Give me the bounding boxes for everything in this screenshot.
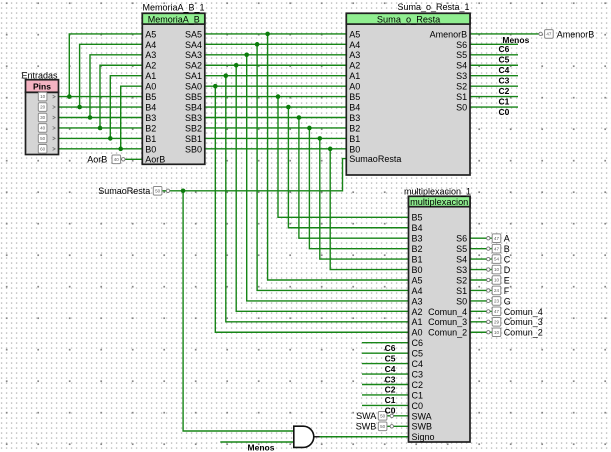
svg-text:C0: C0	[412, 401, 424, 411]
svg-text:A5: A5	[145, 29, 156, 39]
svg-text:SB2: SB2	[185, 123, 202, 133]
svg-text:B2: B2	[412, 244, 423, 254]
svg-text:C0: C0	[499, 107, 510, 117]
svg-text:A4: A4	[412, 286, 423, 296]
svg-text:MemoriaA_B_1: MemoriaA_B_1	[142, 2, 204, 12]
svg-text:47: 47	[494, 309, 500, 314]
svg-text:SA4: SA4	[185, 40, 202, 50]
svg-text:SA0: SA0	[185, 82, 202, 92]
svg-text:A0: A0	[145, 82, 156, 92]
svg-text:50: 50	[380, 424, 386, 429]
svg-text:C5: C5	[412, 349, 424, 359]
svg-text:C4: C4	[412, 359, 424, 369]
svg-text:B3: B3	[145, 113, 156, 123]
svg-text:Comun_2: Comun_2	[504, 328, 543, 338]
svg-text:47: 47	[494, 246, 500, 251]
svg-text:AmenorB: AmenorB	[557, 29, 595, 39]
svg-text:C1: C1	[499, 96, 510, 106]
svg-text:D: D	[504, 265, 511, 275]
svg-text:multiplexacion_1: multiplexacion_1	[404, 187, 471, 197]
svg-text:10: 10	[494, 278, 500, 283]
svg-text:B2: B2	[349, 123, 360, 133]
svg-text:A2: A2	[145, 61, 156, 71]
svg-text:C2: C2	[499, 86, 510, 96]
svg-text:20: 20	[40, 105, 46, 110]
svg-text:A1: A1	[412, 317, 423, 327]
svg-text:B4: B4	[145, 102, 156, 112]
svg-text:C: C	[504, 255, 511, 265]
svg-text:SB1: SB1	[185, 134, 202, 144]
svg-text:SB0: SB0	[185, 144, 202, 154]
svg-text:multiplexacion: multiplexacion	[410, 197, 468, 207]
svg-text:B5: B5	[412, 213, 423, 223]
svg-text:B4: B4	[412, 223, 423, 233]
svg-text:S5: S5	[456, 244, 467, 254]
svg-text:A3: A3	[412, 296, 423, 306]
svg-text:Comun_4: Comun_4	[428, 307, 467, 317]
svg-text:C2: C2	[385, 385, 396, 395]
svg-text:30: 30	[40, 115, 46, 120]
svg-text:E: E	[504, 275, 510, 285]
svg-text:23: 23	[494, 299, 500, 304]
svg-text:B0: B0	[145, 144, 156, 154]
svg-text:B2: B2	[145, 123, 156, 133]
svg-text:SWA: SWA	[356, 411, 376, 421]
svg-text:C4: C4	[499, 65, 510, 75]
svg-text:A3: A3	[349, 50, 360, 60]
svg-text:B1: B1	[145, 134, 156, 144]
svg-text:G: G	[504, 296, 511, 306]
svg-text:S6: S6	[456, 234, 467, 244]
svg-text:B: B	[504, 244, 510, 254]
svg-text:Comun_4: Comun_4	[504, 307, 543, 317]
svg-text:S1: S1	[456, 92, 467, 102]
svg-text:SB5: SB5	[185, 92, 202, 102]
svg-text:B0: B0	[412, 265, 423, 275]
svg-text:Entradas: Entradas	[22, 71, 59, 81]
svg-text:B0: B0	[349, 144, 360, 154]
svg-text:SumaoResta: SumaoResta	[349, 154, 401, 164]
svg-text:S4: S4	[456, 61, 467, 71]
svg-text:A: A	[504, 234, 510, 244]
svg-text:A0: A0	[412, 328, 423, 338]
svg-text:AorB: AorB	[145, 155, 165, 165]
svg-text:C0: C0	[385, 406, 396, 416]
svg-text:Comun_2: Comun_2	[428, 328, 467, 338]
svg-text:SWA: SWA	[412, 411, 432, 421]
svg-text:B5: B5	[349, 92, 360, 102]
svg-text:10: 10	[494, 330, 500, 335]
svg-text:S3: S3	[456, 71, 467, 81]
svg-text:50: 50	[40, 136, 46, 141]
svg-text:SA1: SA1	[185, 71, 202, 81]
svg-text:Signo: Signo	[412, 432, 435, 442]
svg-text:10: 10	[494, 267, 500, 272]
svg-text:10: 10	[40, 94, 46, 99]
svg-text:A1: A1	[349, 71, 360, 81]
svg-text:Pins: Pins	[33, 82, 51, 92]
svg-text:SA3: SA3	[185, 50, 202, 60]
svg-text:S4: S4	[456, 255, 467, 265]
svg-text:A5: A5	[349, 29, 360, 39]
svg-text:AorB: AorB	[87, 155, 107, 165]
svg-text:B3: B3	[349, 113, 360, 123]
svg-text:S5: S5	[456, 50, 467, 60]
svg-text:SA5: SA5	[185, 29, 202, 39]
svg-text:40: 40	[114, 157, 120, 162]
svg-text:S3: S3	[456, 265, 467, 275]
svg-text:MemoriaA_B: MemoriaA_B	[148, 14, 200, 24]
svg-text:A2: A2	[349, 61, 360, 71]
svg-text:A2: A2	[412, 307, 423, 317]
svg-text:A4: A4	[145, 40, 156, 50]
svg-text:B1: B1	[349, 134, 360, 144]
svg-text:C3: C3	[412, 369, 424, 379]
svg-text:A5: A5	[412, 275, 423, 285]
svg-text:24: 24	[494, 288, 500, 293]
svg-text:B3: B3	[412, 234, 423, 244]
svg-text:54: 54	[494, 257, 500, 262]
svg-text:A1: A1	[145, 71, 156, 81]
svg-text:S2: S2	[456, 275, 467, 285]
svg-text:S2: S2	[456, 82, 467, 92]
svg-text:C5: C5	[385, 353, 396, 363]
svg-text:29: 29	[494, 319, 500, 324]
svg-text:C6: C6	[385, 343, 396, 353]
svg-text:SA2: SA2	[185, 61, 202, 71]
svg-text:SB3: SB3	[185, 113, 202, 123]
svg-text:C1: C1	[385, 395, 396, 405]
svg-text:S0: S0	[456, 296, 467, 306]
svg-text:A0: A0	[349, 82, 360, 92]
svg-text:AmenorB: AmenorB	[430, 29, 468, 39]
svg-text:40: 40	[40, 126, 46, 131]
svg-text:C5: C5	[499, 55, 510, 65]
svg-text:C1: C1	[412, 390, 424, 400]
svg-text:A4: A4	[349, 40, 360, 50]
svg-text:C4: C4	[385, 364, 396, 374]
svg-text:C6: C6	[412, 338, 424, 348]
svg-text:SB4: SB4	[185, 102, 202, 112]
svg-text:B5: B5	[145, 92, 156, 102]
svg-text:S1: S1	[456, 286, 467, 296]
svg-text:B4: B4	[349, 102, 360, 112]
svg-text:Comun_3: Comun_3	[504, 317, 543, 327]
svg-text:47: 47	[546, 32, 552, 37]
svg-text:B1: B1	[412, 255, 423, 265]
svg-text:C3: C3	[499, 75, 510, 85]
svg-text:SWB: SWB	[356, 422, 377, 432]
svg-text:S6: S6	[456, 40, 467, 50]
svg-text:C3: C3	[385, 374, 396, 384]
svg-text:A3: A3	[145, 50, 156, 60]
svg-text:Suma_o_Resta_1: Suma_o_Resta_1	[397, 2, 469, 12]
svg-text:Menos: Menos	[248, 442, 275, 452]
svg-text:C6: C6	[499, 44, 510, 54]
svg-text:F: F	[504, 286, 510, 296]
svg-text:Comun_3: Comun_3	[428, 317, 467, 327]
svg-text:Suma_o_Resta: Suma_o_Resta	[377, 14, 441, 24]
svg-text:60: 60	[40, 146, 46, 151]
svg-text:C2: C2	[412, 380, 424, 390]
svg-text:SumaoResta: SumaoResta	[98, 186, 150, 196]
svg-text:47: 47	[494, 236, 500, 241]
svg-text:50: 50	[155, 188, 161, 193]
svg-text:S0: S0	[456, 102, 467, 112]
svg-text:SWB: SWB	[412, 422, 433, 432]
